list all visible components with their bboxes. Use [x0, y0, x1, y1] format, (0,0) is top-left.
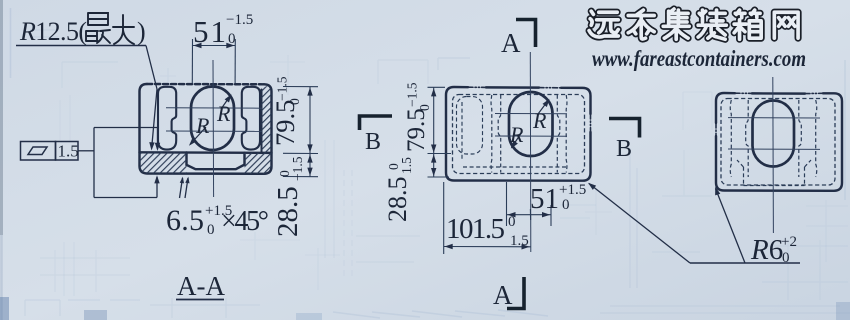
- outer body perimeter (left, bottom, right solid): [140, 84, 272, 174]
- mid view dim 51 bottom: [507, 182, 552, 226]
- vertical centerline: [212, 60, 215, 197]
- mid dim text 79.5 -1.5/0 rotated: [403, 82, 432, 152]
- svg-text:A: A: [501, 28, 521, 58]
- svg-text:+1.5: +1.5: [559, 182, 586, 198]
- phantom break right edge: [590, 114, 592, 132]
- dimension 28.5 right side: [283, 154, 318, 177]
- svg-text:B: B: [616, 136, 632, 162]
- hidden bottom aperture pedestal (dashed): [737, 160, 811, 186]
- hidden floor aperture edge (dashed): [463, 166, 567, 168]
- svg-text:−1.5: −1.5: [275, 76, 290, 101]
- leader polyline to floor surface: [146, 46, 157, 147]
- svg-text:+2: +2: [781, 234, 797, 250]
- svg-text:0: 0: [207, 222, 215, 238]
- svg-text:0: 0: [417, 104, 432, 111]
- svg-text:0: 0: [562, 197, 570, 213]
- svg-text:1.5: 1.5: [399, 157, 414, 174]
- underline of R12.5 note: [16, 45, 146, 47]
- phantom break top-right: [539, 87, 561, 89]
- side view outline (solid with phantom breaks): [716, 93, 842, 191]
- svg-text:101.5: 101.5: [446, 213, 505, 245]
- chamfer 6.5x45 tick marks: [180, 178, 189, 198]
- svg-text:6.5: 6.5: [166, 204, 204, 237]
- cutting plane mark A bottom: [507, 277, 524, 309]
- dimension text 28.5 0/-1.5 (rotated): [272, 156, 305, 237]
- svg-text:28.5: 28.5: [383, 177, 412, 223]
- svg-text:×45°: ×45°: [221, 206, 269, 237]
- svg-text:0: 0: [228, 31, 236, 47]
- svg-text:R12.5(: R12.5(: [19, 17, 87, 46]
- horizontal centerlines: [728, 77, 820, 233]
- char 箱: [734, 10, 761, 39]
- svg-text:A: A: [493, 280, 513, 310]
- mid view dim 101.5 bottom: [444, 182, 531, 254]
- svg-text:R6: R6: [750, 234, 783, 266]
- dimension text 79.5 -1.5/0 (rotated): [270, 76, 302, 146]
- horizontal centerlines of oval radii: [166, 60, 262, 197]
- cutting plane mark A top: [516, 20, 536, 48]
- vertical centerline: [529, 52, 532, 252]
- left slot (elongated hole with waist): [158, 87, 176, 150]
- svg-text:R: R: [509, 122, 524, 147]
- horizontal centerlines: [495, 52, 567, 252]
- top edge hidden (dashed): [147, 83, 264, 86]
- hidden end aperture at left (dashed): [457, 97, 483, 155]
- radius arrow lower-left: [190, 127, 206, 145]
- dimension 79.5 right side: extension lines: [283, 87, 318, 154]
- hidden slot silhouettes left pair: [730, 100, 731, 177]
- watermark: outlined chinese characters 远东集装箱网: [589, 9, 798, 39]
- svg-text:1.5: 1.5: [58, 142, 79, 161]
- hatching: floor left block: [140, 153, 187, 174]
- svg-text:R: R: [532, 108, 547, 133]
- svg-text:−1.5: −1.5: [226, 12, 253, 28]
- flatness feature control frame: [21, 142, 79, 161]
- phantom break top-left: [735, 92, 752, 94]
- svg-text:79.5: 79.5: [403, 108, 430, 152]
- hatching: right end wall: [262, 85, 272, 153]
- right wall inner line: [261, 90, 263, 153]
- hidden inner wall (dashed rounded rect): [453, 95, 585, 174]
- vertical centerline: [772, 77, 775, 233]
- svg-text:1.5: 1.5: [510, 233, 529, 249]
- radius arrow upper-right: [538, 100, 549, 114]
- cutting plane mark B left: [360, 116, 393, 130]
- hatching: floor right block: [245, 153, 272, 174]
- char 网: [774, 12, 798, 38]
- floor top surface: [140, 151, 272, 154]
- dimension 51 top: extension lines: [192, 39, 235, 83]
- radius arrow lower-left: [512, 132, 523, 148]
- char 东: [628, 10, 654, 39]
- char 集: [663, 9, 689, 39]
- section view A-A outline: [140, 84, 272, 174]
- hidden inner wall dashed rect: [721, 99, 835, 186]
- svg-text:51: 51: [530, 183, 559, 215]
- hidden slot silhouettes right pair: [799, 100, 802, 177]
- svg-text:0: 0: [782, 250, 790, 266]
- central oval aperture: [509, 92, 553, 156]
- dimension 51 line: [193, 45, 236, 47]
- top view outline (solid with phantom breaks): [446, 87, 591, 181]
- svg-text:www.fareastcontainers.com: www.fareastcontainers.com: [592, 46, 806, 71]
- hidden slot silhouettes right pair: [557, 95, 560, 173]
- right slot (mirrored): [242, 87, 260, 150]
- svg-text:0: 0: [287, 98, 302, 105]
- hidden slot silhouettes left pair: [490, 95, 493, 173]
- svg-text:B: B: [365, 129, 381, 155]
- phantom break top-right: [805, 92, 823, 94]
- chinese 最大 (max) strokes: [86, 13, 134, 44]
- svg-text:0: 0: [508, 214, 516, 230]
- char 远: [589, 11, 618, 37]
- phantom break left edge: [715, 123, 717, 136]
- central oval aperture: [191, 87, 234, 151]
- radius arrow upper-right: [221, 96, 231, 110]
- svg-text:−1.5: −1.5: [405, 82, 420, 107]
- mid view dim 28.5 left: [428, 154, 450, 177]
- leader to side view corner: [716, 189, 746, 264]
- floor aperture recess with 45deg chamfers: [187, 153, 245, 170]
- svg-text:79.5: 79.5: [270, 100, 300, 146]
- cutting plane mark B right: [609, 119, 640, 138]
- svg-text:−1.5: −1.5: [290, 156, 305, 181]
- svg-text:): ): [137, 17, 146, 46]
- char 装: [698, 10, 726, 39]
- leader to top view corner: [589, 184, 690, 264]
- svg-text:R: R: [195, 113, 210, 138]
- svg-text:A-A: A-A: [177, 271, 225, 301]
- mid view dim 79.5 left: extension+dim lines: [428, 87, 452, 153]
- FCF leader with two arrows: [78, 128, 158, 198]
- central oval aperture: [753, 101, 795, 167]
- phantom break top-left: [468, 86, 486, 88]
- svg-text:R: R: [216, 101, 231, 126]
- svg-text:28.5: 28.5: [272, 186, 304, 237]
- R6 +2/0 corner radius callout: [690, 262, 800, 264]
- mid dim text 28.5 0/1.5 rotated: [383, 157, 414, 222]
